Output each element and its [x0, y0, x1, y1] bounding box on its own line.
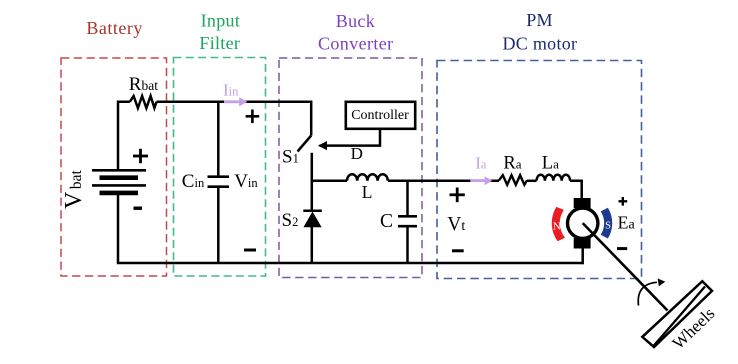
- inductor La: [537, 175, 571, 181]
- controller box: [346, 102, 415, 129]
- svg-text:Ra: Ra: [503, 154, 521, 174]
- motor: rotor circle: [568, 208, 598, 238]
- wire: Cin branch bottom: [217, 187, 220, 263]
- resistor Ra: [499, 175, 527, 185]
- motor: top brush: [574, 198, 591, 208]
- resistor Rbat: [130, 96, 157, 108]
- Ea - sign: [617, 247, 627, 250]
- svg-text:S: S: [605, 221, 611, 232]
- current arrow Ia: [470, 179, 485, 182]
- capacitor C leads: [406, 181, 409, 217]
- svg-text:Converter: Converter: [318, 33, 394, 53]
- wire: controller to switch (gate drive): [320, 129, 381, 146]
- svg-text:C: C: [380, 211, 393, 232]
- svg-text:L: L: [362, 182, 373, 202]
- wire: motor bottom to bus: [581, 248, 584, 264]
- motor shaft: [583, 223, 668, 310]
- svg-text:Filter: Filter: [199, 33, 240, 53]
- wire: Ra to La: [527, 180, 537, 183]
- svg-text:N: N: [553, 221, 561, 233]
- battery - terminal: [134, 206, 143, 209]
- wire: junction to inductor L: [312, 180, 347, 183]
- current arrow Iin: [224, 100, 240, 103]
- wire: inductor to Ra (through C junction): [388, 180, 499, 183]
- svg-text:Controller: Controller: [351, 108, 409, 123]
- wire: battery positive lead up to resistor: [118, 102, 130, 171]
- wire: top bus from resistor to S1: [157, 102, 312, 136]
- diode S2: [303, 210, 322, 213]
- battery boundary box (red dashed): [61, 58, 167, 276]
- Vt - sign: [452, 249, 464, 252]
- input filter boundary box (green dashed): [174, 58, 266, 277]
- svg-text:La: La: [542, 154, 559, 174]
- PM DC motor boundary box (blue dashed): [437, 61, 642, 279]
- switch S1 arm: [298, 136, 312, 152]
- capacitor C plates: [398, 216, 417, 226]
- wire: Cin branch top: [217, 102, 220, 177]
- rotation arrow: [638, 282, 657, 305]
- svg-text:Battery: Battery: [86, 18, 142, 38]
- bottom bus wire: [117, 262, 583, 265]
- svg-text:D: D: [351, 144, 363, 163]
- capacitor Cin: [208, 177, 230, 187]
- svg-text:Rbat: Rbat: [129, 74, 158, 95]
- motor: bottom brush: [574, 238, 591, 249]
- wheel rim line: [654, 287, 705, 346]
- Vin + sign: [246, 110, 260, 124]
- svg-text:PM: PM: [526, 10, 553, 30]
- svg-text:Input: Input: [201, 10, 241, 30]
- Ea + sign: [619, 197, 628, 206]
- svg-text:Buck: Buck: [336, 11, 375, 31]
- arrowhead of gate drive: [318, 141, 327, 150]
- Vin - sign: [244, 249, 256, 252]
- battery + terminal: [133, 149, 148, 163]
- wire: battery negative lead: [117, 193, 120, 263]
- Vt + sign: [450, 188, 465, 203]
- battery symbol Vbat plates: [92, 170, 146, 193]
- inductor L: [347, 174, 388, 181]
- wire: S1 lower contact down to L junction: [311, 153, 314, 182]
- buck converter boundary box (purple dashed): [279, 58, 422, 278]
- svg-text:DC motor: DC motor: [502, 33, 577, 53]
- motor: stator magnet N (red): [552, 207, 565, 241]
- motor: stator magnet S (blue): [601, 208, 613, 239]
- wire: La to motor: [570, 181, 582, 199]
- wire: diode anode down to bus: [311, 227, 314, 263]
- wheel: [642, 281, 712, 347]
- wire: S2 branch from junction to diode: [311, 181, 314, 212]
